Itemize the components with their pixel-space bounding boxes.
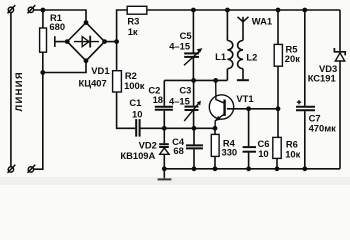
svg-text:470мк: 470мк [309,123,337,134]
svg-text:VD2: VD2 [139,140,157,151]
svg-text:КЦ407: КЦ407 [79,77,107,88]
svg-text:4–15: 4–15 [169,40,190,51]
svg-text:680: 680 [49,21,65,32]
svg-text:КВ109А: КВ109А [120,150,155,161]
svg-text:VT1: VT1 [236,93,253,104]
svg-text:VD1: VD1 [91,65,109,76]
svg-text:КС191: КС191 [308,73,336,84]
svg-text:C5: C5 [180,30,192,41]
svg-text:R3: R3 [127,15,139,26]
svg-text:L2: L2 [246,51,257,62]
svg-text:20к: 20к [285,53,300,64]
svg-text:L1: L1 [215,51,226,62]
svg-text:C1: C1 [129,97,141,108]
svg-text:330: 330 [222,147,238,158]
svg-text:ЛИНИЯ: ЛИНИЯ [13,71,24,112]
svg-text:10: 10 [258,148,268,159]
svg-text:100к: 100к [124,80,145,91]
svg-text:WA1: WA1 [252,16,272,27]
svg-text:1к: 1к [128,26,138,37]
svg-text:10к: 10к [285,148,300,159]
svg-text:4–15: 4–15 [169,96,190,107]
svg-text:10: 10 [132,108,142,119]
svg-text:68: 68 [173,145,183,156]
svg-text:18: 18 [153,94,163,105]
svg-text:C3: C3 [179,85,191,96]
